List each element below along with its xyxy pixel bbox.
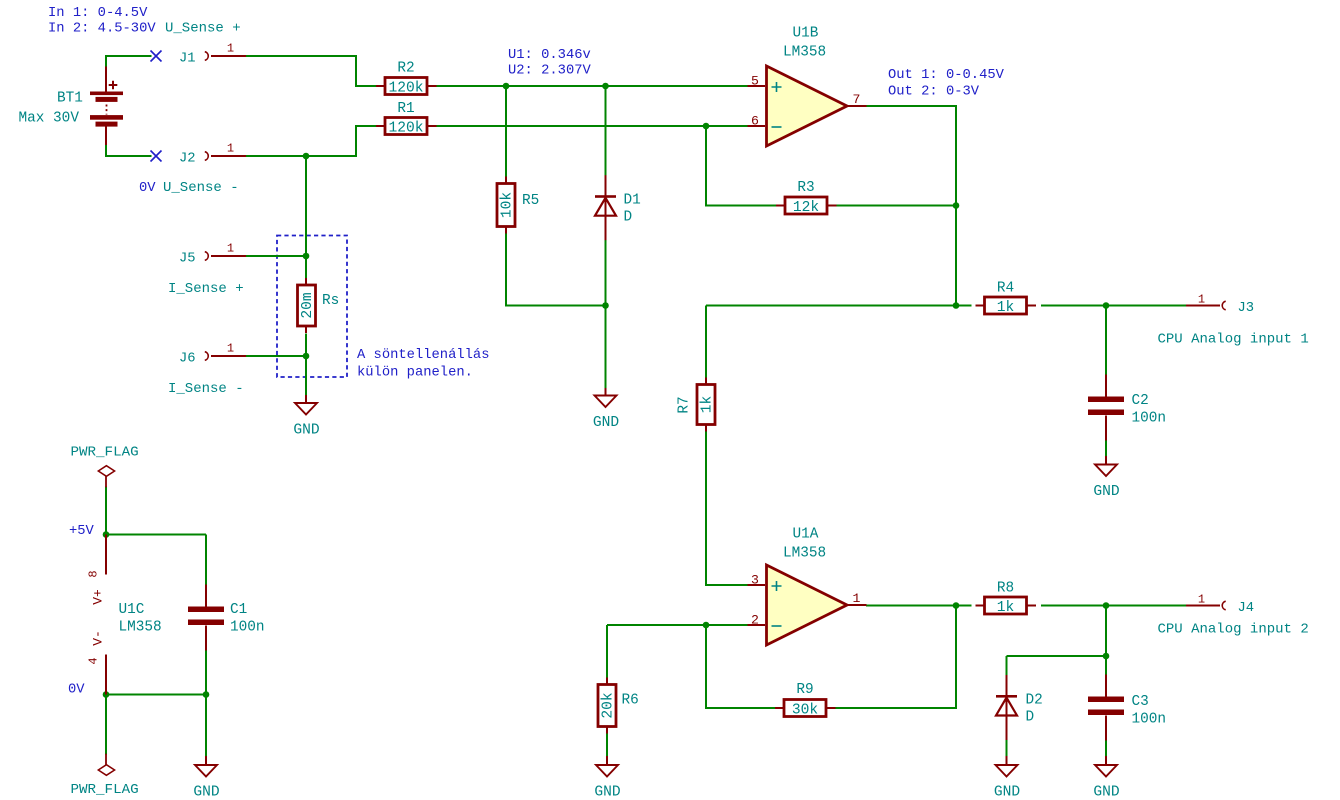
connector J1 <box>179 42 246 67</box>
svg-text:PWR_FLAG: PWR_FLAG <box>71 445 139 461</box>
U1A plus input mark <box>772 581 782 591</box>
junction at (1106,605.5) <box>1103 602 1110 609</box>
wire battery+ to J1 <box>106 56 152 67</box>
junction at (1106,305.5) <box>1103 302 1110 309</box>
svg-text:CPU Analog input 1: CPU Analog input 1 <box>1158 332 1309 348</box>
resistor R4 1k <box>976 281 1037 317</box>
J2 pin symbol <box>205 152 208 161</box>
capacitor C3 100n <box>1088 675 1166 741</box>
Rs body <box>298 285 316 326</box>
no-connect X at J1 <box>151 51 162 62</box>
no-connect X at J2 <box>151 151 162 162</box>
svg-text:7: 7 <box>853 92 861 107</box>
svg-text:J5: J5 <box>179 252 196 267</box>
svg-text:8: 8 <box>87 570 101 577</box>
wire U1A pin2 feedback to R9 <box>706 625 776 708</box>
junction at (106,534.5) <box>103 531 110 538</box>
junction at (706,126) <box>703 123 710 130</box>
R9 pins <box>775 707 836 709</box>
R2 body <box>385 78 427 95</box>
R4 body <box>985 297 1027 314</box>
wire D1 bottom to GND <box>605 236 607 389</box>
note: U1/U2 voltages <box>508 48 592 79</box>
svg-text:CPU Analog input 2: CPU Analog input 2 <box>1158 622 1309 638</box>
wire node down to R7 <box>705 306 707 379</box>
wire node to R4 <box>706 305 972 307</box>
svg-text:U1: 0.346v: U1: 0.346v <box>508 48 591 63</box>
svg-text:R1: R1 <box>397 101 414 117</box>
J6 pin symbol <box>205 352 208 361</box>
C1 pins <box>205 585 207 651</box>
R8 body <box>985 597 1027 614</box>
junction at (605.5,86) <box>602 83 609 90</box>
svg-text:3: 3 <box>751 573 759 588</box>
C2 pins <box>1105 375 1107 441</box>
svg-text:GND: GND <box>594 785 621 800</box>
wire node down to C1 <box>205 535 207 590</box>
svg-text:R2: R2 <box>397 61 414 77</box>
wire U1A output to R8 <box>866 605 972 607</box>
svg-text:D: D <box>624 210 633 226</box>
junction at (106,694.5) <box>103 691 110 698</box>
svg-text:J3: J3 <box>1238 301 1255 316</box>
R2 pins <box>376 85 437 87</box>
U1A body <box>767 565 848 645</box>
svg-text:D: D <box>1026 710 1035 726</box>
R7 body <box>697 385 715 425</box>
svg-text:+5V: +5V <box>69 524 95 539</box>
J5 pin line <box>211 255 246 257</box>
svg-text:D1: D1 <box>624 193 641 209</box>
svg-text:Rs: Rs <box>322 293 339 309</box>
note: shunt resistor remark (Hungarian) <box>357 347 489 381</box>
svg-text:0V: 0V <box>139 181 156 196</box>
connector J3 <box>1186 293 1254 317</box>
wire node down to C3 <box>1105 606 1107 678</box>
net label U_Sense + <box>165 21 241 37</box>
svg-text:R8: R8 <box>997 581 1014 597</box>
svg-text:külön panelen.: külön panelen. <box>357 365 473 381</box>
junction at (956,605.5) <box>953 602 960 609</box>
svg-text:5: 5 <box>751 74 759 89</box>
U1C pin 4 V- <box>105 655 107 695</box>
U1A input pins <box>748 585 766 625</box>
svg-text:4: 4 <box>87 657 101 664</box>
connector J4 <box>1186 593 1254 617</box>
U1A minus input mark <box>772 625 782 627</box>
resistor R5 10k <box>497 177 539 234</box>
resistor R9 30k <box>775 682 836 719</box>
svg-text:C3: C3 <box>1132 694 1149 710</box>
svg-text:1k: 1k <box>997 600 1015 616</box>
resistor R6 20k <box>598 678 639 734</box>
wire J5 to Rs node <box>246 255 306 257</box>
svg-text:GND: GND <box>193 785 220 800</box>
svg-text:20k: 20k <box>601 692 617 719</box>
connector J5 <box>179 242 246 267</box>
wire Rs bottom to GND <box>305 334 307 396</box>
svg-text:I_Sense +: I_Sense + <box>168 281 244 297</box>
svg-text:In 2: 4.5-30V: In 2: 4.5-30V <box>48 22 156 37</box>
R3 pins <box>776 205 837 207</box>
svg-text:V-: V- <box>91 630 106 646</box>
D2 triangle <box>996 698 1017 716</box>
junction at (706,625) <box>703 622 710 629</box>
wire R5 bottom to D1 node <box>506 234 606 306</box>
svg-text:V+: V+ <box>91 589 106 605</box>
junction at (956,305.5) <box>953 302 960 309</box>
svg-text:1k: 1k <box>700 396 716 414</box>
capacitor C2 100n <box>1088 375 1166 441</box>
wire J6 to Rs node <box>246 355 306 357</box>
J2 pin line <box>211 155 246 157</box>
D1 triangle <box>595 198 616 216</box>
svg-text:100n: 100n <box>230 620 265 636</box>
svg-text:U1A: U1A <box>793 527 819 543</box>
svg-text:R4: R4 <box>997 281 1014 297</box>
R6 pins <box>606 678 608 734</box>
svg-text:1: 1 <box>227 342 234 356</box>
svg-text:1k: 1k <box>997 300 1015 316</box>
R3 body <box>785 197 827 214</box>
svg-text:U_Sense +: U_Sense + <box>165 21 241 37</box>
svg-text:J4: J4 <box>1238 601 1255 616</box>
wire R7 to U1A pin3 <box>706 432 748 586</box>
diode D2 <box>996 675 1043 740</box>
R5 pins <box>505 177 507 234</box>
net label I_Sense + <box>168 281 244 297</box>
C3 plates <box>1088 697 1124 716</box>
ground below D2 <box>994 756 1021 800</box>
resistor R2 120k <box>376 61 437 97</box>
svg-text:1: 1 <box>1198 293 1205 307</box>
wire J1 to R2 <box>246 56 377 86</box>
svg-text:10k: 10k <box>500 192 516 219</box>
wire U1B pin6 feedback to R3 <box>706 126 776 206</box>
wire 0V node to PWR_FLAG bottom <box>105 695 107 755</box>
wire D2 bottom to GND <box>1006 740 1008 757</box>
J3 pin line <box>1186 305 1220 307</box>
connector J6 <box>179 342 246 367</box>
svg-text:U2: 2.307V: U2: 2.307V <box>508 64 592 79</box>
svg-text:PWR_FLAG: PWR_FLAG <box>71 782 139 798</box>
note: output ranges <box>888 68 1005 100</box>
diode D1 <box>595 175 641 240</box>
wire node to C2 <box>1105 306 1107 375</box>
note: input ranges <box>48 6 156 37</box>
power label 0V at J2 <box>139 181 156 196</box>
C3 pins <box>1105 675 1107 741</box>
U1A output pin <box>847 604 867 606</box>
power flag PWR_FLAG bottom <box>71 754 139 798</box>
wire J2 to R1 <box>246 126 377 156</box>
op-amp U1C power pins <box>87 535 162 695</box>
ground below C1 <box>193 756 220 800</box>
svg-text:1: 1 <box>853 591 861 606</box>
wire C3 node to D2 <box>1007 655 1107 657</box>
svg-text:GND: GND <box>994 785 1021 800</box>
svg-text:Out 1: 0-0.45V: Out 1: 0-0.45V <box>888 68 1005 83</box>
svg-text:J6: J6 <box>179 352 196 367</box>
svg-text:100n: 100n <box>1132 411 1167 427</box>
resistor Rs 20m shunt <box>298 278 340 333</box>
svg-text:12k: 12k <box>793 200 820 216</box>
wire R1 to U1B pin6 <box>437 125 748 127</box>
wire +5V node to C1 <box>106 534 206 536</box>
wire C1 bottom to 0V node <box>205 640 207 695</box>
junction at (306,256) <box>303 253 310 260</box>
junction at (306,356) <box>303 353 310 360</box>
svg-text:J2: J2 <box>179 152 196 167</box>
junction at (506,86) <box>503 83 510 90</box>
net label CPU Analog input 2 <box>1158 622 1309 638</box>
power flag PWR_FLAG top <box>71 445 139 488</box>
svg-text:BT1: BT1 <box>57 91 83 107</box>
svg-text:GND: GND <box>1093 785 1120 800</box>
svg-text:0V: 0V <box>68 683 85 698</box>
svg-text:In 1: 0-4.5V: In 1: 0-4.5V <box>48 6 148 21</box>
svg-text:C2: C2 <box>1132 393 1149 409</box>
connector J2 <box>179 142 246 167</box>
svg-text:I_Sense -: I_Sense - <box>168 381 244 397</box>
svg-text:LM358: LM358 <box>783 546 826 562</box>
J4 pin symbol <box>1222 601 1225 610</box>
C1 plates <box>188 607 224 626</box>
wire J2 node down to Rs <box>305 156 307 278</box>
wire R4 to J3 <box>1041 305 1186 307</box>
svg-text:GND: GND <box>1093 484 1120 500</box>
U1B plus input mark <box>772 82 782 92</box>
svg-text:20m: 20m <box>300 292 316 319</box>
wire node down to R6 <box>606 625 608 678</box>
svg-text:GND: GND <box>293 423 320 439</box>
D2 pins <box>1006 675 1008 740</box>
svg-text:2: 2 <box>751 613 759 628</box>
wire R8 to J4 <box>1041 605 1186 607</box>
R4 pins <box>976 305 1037 307</box>
C2 plates <box>1088 397 1124 416</box>
svg-text:Max 30V: Max 30V <box>19 111 80 127</box>
ground below C2 <box>1093 456 1120 500</box>
wire 0V node across <box>106 694 206 696</box>
J3 pin symbol <box>1222 301 1225 310</box>
svg-text:120k: 120k <box>388 121 423 137</box>
U1B body <box>767 66 848 146</box>
wire R6 bottom to GND <box>606 734 608 757</box>
U1B minus input mark <box>772 126 782 128</box>
svg-text:U_Sense -: U_Sense - <box>163 180 239 196</box>
junction at (956,205.5) <box>953 202 960 209</box>
svg-text:1: 1 <box>227 142 234 156</box>
R1 body <box>385 118 427 135</box>
svg-text:1: 1 <box>1198 593 1205 607</box>
R1 pins <box>376 125 437 127</box>
BT1 plates <box>90 92 123 127</box>
R8 pins <box>976 605 1037 607</box>
svg-text:120k: 120k <box>388 81 423 97</box>
J4 pin line <box>1186 605 1220 607</box>
wire PWR_FLAG top to +5V node <box>105 487 107 535</box>
wire node down to D2 <box>1006 656 1008 676</box>
BT1 pins <box>105 67 107 146</box>
power label 0V <box>68 683 85 698</box>
net label U_Sense - <box>163 180 239 196</box>
wire R3 to output node <box>836 205 956 207</box>
net label CPU Analog input 1 <box>1158 332 1309 348</box>
resistor R7 1k <box>677 378 716 432</box>
J6 pin line <box>211 355 246 357</box>
R9 body <box>784 700 826 717</box>
svg-text:U1C: U1C <box>119 602 145 618</box>
svg-text:U1B: U1B <box>793 26 819 42</box>
ground below D1 <box>593 388 620 431</box>
svg-text:R3: R3 <box>797 180 814 196</box>
wire C2 bottom to GND <box>1105 436 1107 457</box>
wire U1B output down <box>866 106 956 306</box>
svg-text:D2: D2 <box>1026 693 1043 709</box>
wire node to R5 <box>505 86 507 178</box>
svg-text:C1: C1 <box>230 602 247 618</box>
wire C1 node to GND <box>205 695 207 757</box>
svg-text:GND: GND <box>593 415 620 431</box>
Rs pins <box>305 278 307 333</box>
J1 pin line <box>211 55 246 57</box>
power label +5V <box>69 524 95 539</box>
svg-text:Out 2: 0-3V: Out 2: 0-3V <box>888 85 980 100</box>
svg-text:R7: R7 <box>677 396 693 413</box>
svg-text:1: 1 <box>227 242 234 256</box>
junction at (1106,656) <box>1103 653 1110 660</box>
junction at (605.5,305.5) <box>602 302 609 309</box>
op-amp U1B LM358 <box>748 26 867 147</box>
svg-text:R6: R6 <box>622 693 639 709</box>
ground below C3 <box>1093 756 1120 800</box>
wire R9 to U1A output node <box>836 606 957 709</box>
U1C pin 8 V+ <box>105 535 107 575</box>
net label I_Sense - <box>168 381 244 397</box>
D2 cathode bar <box>996 695 1017 698</box>
R5 body <box>497 184 515 227</box>
svg-text:1: 1 <box>227 42 234 56</box>
wire R2 to U1B pin5 <box>437 85 748 87</box>
junction at (306,156) <box>303 153 310 160</box>
svg-text:30k: 30k <box>792 703 819 719</box>
svg-text:R5: R5 <box>522 193 539 209</box>
svg-text:J1: J1 <box>179 52 196 67</box>
capacitor C1 100n <box>188 585 265 651</box>
J5 pin symbol <box>205 252 208 261</box>
R7 pins <box>705 378 707 432</box>
U1B output pin <box>847 105 867 107</box>
BT1 plus mark <box>109 81 118 90</box>
ground below Rs <box>293 395 320 439</box>
R6 body <box>598 685 616 727</box>
svg-text:LM358: LM358 <box>783 45 826 61</box>
wire R6 node to U1A pin2 <box>607 624 748 626</box>
resistor R8 1k <box>976 581 1037 617</box>
svg-text:LM358: LM358 <box>119 620 162 636</box>
ground below R6 <box>594 756 621 800</box>
resistor R3 12k <box>776 180 837 216</box>
battery BT1 Max 30V <box>19 67 124 146</box>
resistor R1 120k <box>376 101 437 137</box>
U1B input pins <box>748 86 766 126</box>
svg-text:A söntellenállás: A söntellenállás <box>357 347 489 363</box>
svg-text:6: 6 <box>751 114 759 129</box>
wire C3 bottom to GND <box>1105 741 1107 757</box>
D1 cathode bar <box>595 195 616 198</box>
svg-text:R9: R9 <box>796 682 813 698</box>
svg-text:100n: 100n <box>1132 712 1167 728</box>
J1 pin symbol <box>205 52 208 61</box>
junction at (206,694.5) <box>203 691 210 698</box>
wire node to D1 <box>605 86 607 177</box>
note: dashed box around Rs <box>277 236 347 378</box>
D1 pins <box>605 175 607 240</box>
op-amp U1A LM358 <box>748 527 867 646</box>
wire battery- to J2 <box>106 145 152 156</box>
